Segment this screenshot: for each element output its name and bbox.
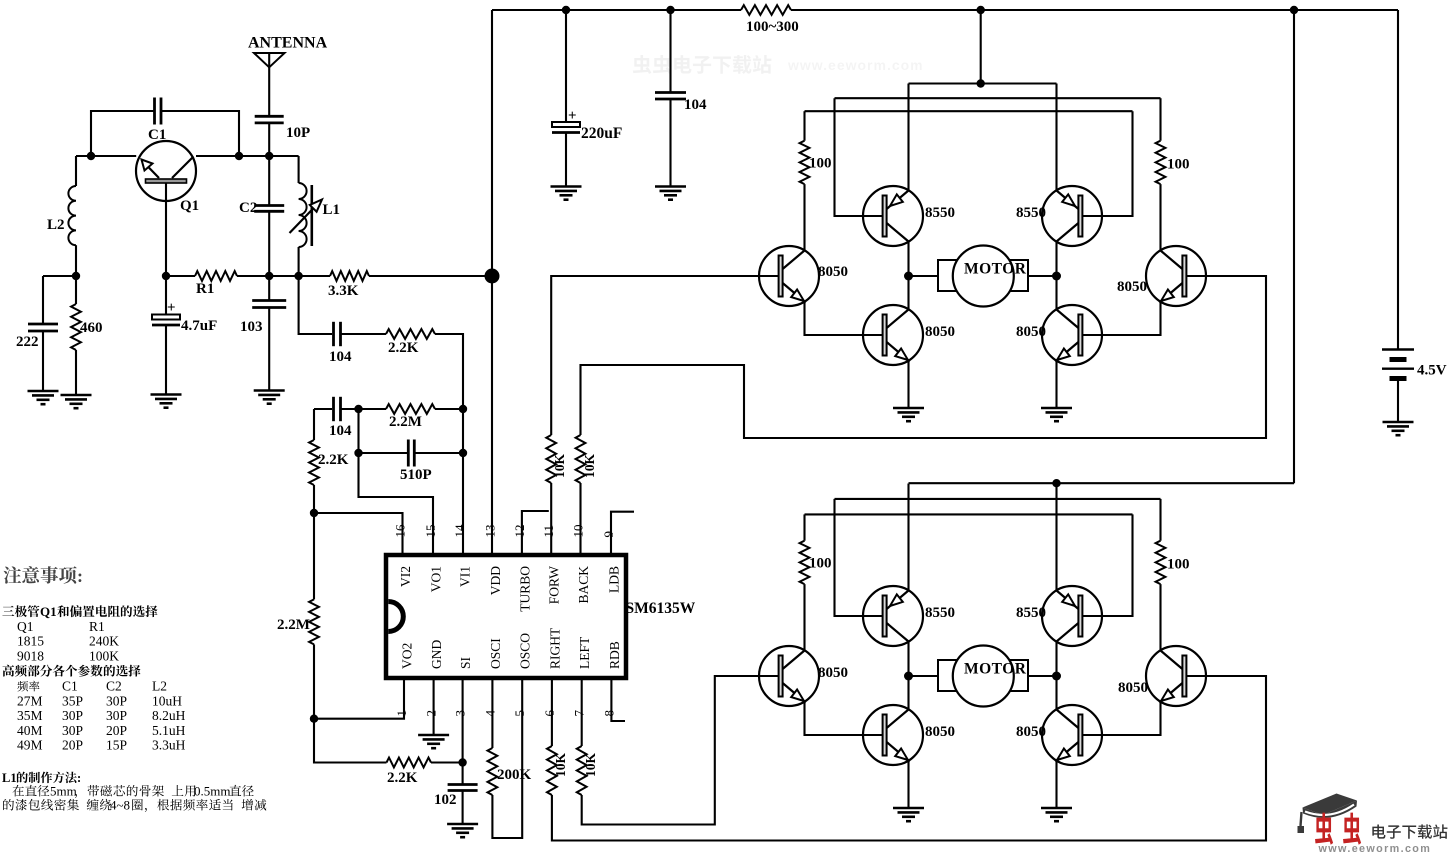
wire xyxy=(166,275,195,277)
svg-text:8050: 8050 xyxy=(818,665,848,681)
wire xyxy=(907,84,909,191)
node xyxy=(235,152,243,160)
svg-text:11: 11 xyxy=(541,525,556,538)
capacitor 104 (row2) xyxy=(334,397,341,421)
svg-text:LEFT: LEFT xyxy=(577,636,592,669)
svg-text:30P: 30P xyxy=(106,708,127,723)
wire xyxy=(1055,761,1057,809)
svg-text:0.5mm: 0.5mm xyxy=(194,784,230,799)
svg-text:1815: 1815 xyxy=(17,634,44,649)
svg-text:R1: R1 xyxy=(89,619,105,634)
svg-text:13: 13 xyxy=(482,525,497,538)
wire xyxy=(313,485,315,513)
wire xyxy=(835,499,884,616)
wire xyxy=(907,761,909,809)
node xyxy=(1052,479,1060,487)
svg-text:100K: 100K xyxy=(89,649,119,664)
wire xyxy=(565,133,567,187)
wire pin10 to top-right driver xyxy=(581,276,1267,438)
svg-text:12: 12 xyxy=(512,525,527,538)
capacitor 104 (row1) xyxy=(334,322,341,346)
node xyxy=(265,272,273,280)
wire xyxy=(75,350,77,395)
wire pin 11 xyxy=(550,483,552,555)
watermark site name xyxy=(1372,824,1385,838)
wire cross rail B xyxy=(805,110,1133,112)
watermark logo cap xyxy=(1303,794,1358,818)
svg-text:49M: 49M xyxy=(17,738,43,753)
svg-text:222: 222 xyxy=(16,334,39,350)
svg-text:LDB: LDB xyxy=(607,566,622,593)
wire xyxy=(435,408,463,410)
wire pin7 to lower-left driver xyxy=(582,676,779,825)
watermark tassel xyxy=(1301,812,1302,826)
transistor 8050 (bottom left) xyxy=(863,305,923,365)
wire xyxy=(1055,84,1057,191)
node xyxy=(459,449,467,457)
svg-text:30P: 30P xyxy=(62,723,83,738)
wire xyxy=(1082,302,1161,336)
svg-text:100: 100 xyxy=(1167,557,1190,573)
svg-text:4.5V: 4.5V xyxy=(1417,363,1447,379)
svg-text:20P: 20P xyxy=(62,738,83,753)
ground xyxy=(254,391,285,404)
svg-text:2: 2 xyxy=(424,710,439,717)
svg-text:BACK: BACK xyxy=(576,566,591,604)
resistor 2.2K (bottom) xyxy=(387,758,432,768)
wire xyxy=(1055,276,1057,310)
node motor left xyxy=(904,672,913,681)
svg-text:8050: 8050 xyxy=(925,724,955,740)
op-amp U1 IC SM6135W body xyxy=(386,555,626,678)
ground xyxy=(61,395,92,408)
node VDD junction xyxy=(485,269,500,284)
wire pin 2 xyxy=(433,678,435,735)
wire xyxy=(907,484,909,591)
svg-text:10K: 10K xyxy=(553,753,568,778)
wire xyxy=(1055,361,1057,409)
wire to pin 16 xyxy=(314,513,403,555)
svg-text:35P: 35P xyxy=(62,693,83,708)
capacitor 10P xyxy=(255,116,284,123)
node xyxy=(310,509,318,517)
svg-text:104: 104 xyxy=(684,97,707,113)
wire xyxy=(907,676,909,710)
svg-text:Q1: Q1 xyxy=(40,604,57,619)
wire xyxy=(75,156,77,186)
svg-text:14: 14 xyxy=(452,524,467,538)
svg-text:Q1: Q1 xyxy=(180,198,199,214)
motor xyxy=(938,660,1028,691)
svg-text:27M: 27M xyxy=(17,693,43,708)
svg-text:VI1: VI1 xyxy=(458,566,473,587)
transistor 8050 (bottom left) xyxy=(863,705,923,765)
inductor L1 core bar xyxy=(310,185,313,246)
wire xyxy=(268,308,270,391)
wire xyxy=(907,642,909,677)
svg-text:200K: 200K xyxy=(497,767,532,783)
capacitor 103 xyxy=(252,301,286,308)
svg-text:SI: SI xyxy=(458,656,473,669)
node xyxy=(977,79,985,87)
node xyxy=(354,449,362,457)
svg-text:5: 5 xyxy=(512,710,527,717)
node xyxy=(310,715,318,723)
wire to pin 15 xyxy=(359,409,434,555)
node xyxy=(354,405,362,413)
svg-text:4: 4 xyxy=(482,710,497,717)
svg-text:MOTOR: MOTOR xyxy=(964,661,1027,678)
svg-text:100~300: 100~300 xyxy=(746,19,799,35)
wire xyxy=(313,513,315,599)
svg-text:2.2M: 2.2M xyxy=(389,414,422,430)
wire xyxy=(1028,275,1057,277)
wire xyxy=(803,184,805,250)
wire pin 4 xyxy=(491,678,493,748)
wire pin 7 xyxy=(581,678,583,746)
node xyxy=(458,758,466,766)
resistor 2.2K (left) xyxy=(309,440,319,485)
resistor 100 (left) xyxy=(800,141,810,184)
svg-text:8.2uH: 8.2uH xyxy=(152,708,186,723)
ground xyxy=(28,391,59,404)
svg-text:2.2K: 2.2K xyxy=(388,340,419,356)
resistor 3.3K xyxy=(330,271,369,281)
svg-text:OSCI: OSCI xyxy=(488,638,503,669)
svg-text:2.2K: 2.2K xyxy=(387,770,418,786)
resistor 2.2K (row1) xyxy=(386,329,435,339)
wire bridge V+ rail xyxy=(909,82,1057,84)
wire Q1 collector xyxy=(165,183,167,277)
svg-text:3.3K: 3.3K xyxy=(328,283,359,299)
resistor 10K (pin7) xyxy=(577,746,587,795)
svg-text:20P: 20P xyxy=(106,723,127,738)
note table 2 xyxy=(17,681,28,692)
wire xyxy=(1159,499,1161,541)
wire bridge V+ rail xyxy=(909,482,1295,484)
svg-text:5mm: 5mm xyxy=(50,784,77,799)
transistor 8550 (left) xyxy=(863,586,923,646)
transistor 8050 (left driver) xyxy=(759,646,819,706)
svg-text:16: 16 xyxy=(392,524,407,538)
svg-text:104: 104 xyxy=(329,349,352,365)
svg-text:10: 10 xyxy=(571,525,586,538)
transistor 8050 (bottom right) xyxy=(1042,705,1102,765)
svg-text:6: 6 xyxy=(542,710,557,717)
svg-text:8050: 8050 xyxy=(1016,724,1046,740)
node xyxy=(294,272,302,280)
wire xyxy=(1082,702,1161,736)
wire cross rail B xyxy=(805,513,1133,515)
wire xyxy=(237,275,330,277)
svg-text:RIGHT: RIGHT xyxy=(547,627,562,669)
svg-text:40M: 40M xyxy=(17,723,43,738)
svg-text:104: 104 xyxy=(329,423,352,439)
node motor right xyxy=(1052,272,1061,281)
wire xyxy=(1055,242,1057,277)
wire xyxy=(369,275,492,277)
wire xyxy=(803,584,805,650)
svg-text:510P: 510P xyxy=(400,467,432,483)
node xyxy=(666,6,674,14)
wire xyxy=(298,156,300,183)
faint watermark xyxy=(633,55,771,74)
wire xyxy=(803,514,805,540)
wire pin6 to lower-right driver xyxy=(552,676,1266,841)
wire xyxy=(1055,676,1057,710)
svg-text:RDB: RDB xyxy=(607,641,622,669)
note heading xyxy=(4,566,22,583)
svg-text:2.2K: 2.2K xyxy=(318,452,349,468)
svg-text:www.eeworm.com: www.eeworm.com xyxy=(787,57,924,73)
svg-text:C2: C2 xyxy=(106,679,122,694)
wire xyxy=(414,452,463,454)
node xyxy=(162,272,170,280)
svg-text:9018: 9018 xyxy=(17,649,44,664)
svg-text:15P: 15P xyxy=(106,738,127,753)
wire xyxy=(298,247,300,276)
svg-text:8050: 8050 xyxy=(1016,324,1046,340)
wire xyxy=(268,123,270,206)
ground xyxy=(151,395,182,408)
svg-text:103: 103 xyxy=(240,319,263,335)
wire C1 loop left xyxy=(91,111,155,156)
resistor 10K (pin11) xyxy=(546,435,556,483)
capacitor 4.7uF xyxy=(152,315,180,320)
resistor 100~300 xyxy=(741,5,791,15)
wire xyxy=(196,155,299,157)
ground xyxy=(893,408,924,421)
wire xyxy=(805,702,884,736)
svg-text:100: 100 xyxy=(809,556,832,572)
transistor 8050 (bottom right) xyxy=(1042,305,1102,365)
svg-text:8550: 8550 xyxy=(1016,205,1046,221)
wire xyxy=(431,761,463,763)
wire xyxy=(341,408,387,410)
wire xyxy=(42,276,44,324)
wire xyxy=(165,325,167,395)
resistor 100 (right) xyxy=(1156,141,1166,184)
svg-text:3.3uH: 3.3uH xyxy=(152,738,186,753)
svg-text:8050: 8050 xyxy=(818,264,848,280)
capacitor 104 xyxy=(655,93,686,100)
ground xyxy=(1041,408,1072,421)
IC notch xyxy=(388,602,403,632)
node xyxy=(459,405,467,413)
wire xyxy=(907,276,909,310)
svg-text:L2: L2 xyxy=(152,679,167,694)
svg-text:www.eeworm.com: www.eeworm.com xyxy=(1318,843,1432,853)
watermark chongchong xyxy=(1315,813,1333,845)
wire xyxy=(165,276,167,315)
svg-text:10uH: 10uH xyxy=(152,693,182,708)
capacitor 510P xyxy=(408,440,414,467)
capacitor 102 xyxy=(448,785,478,791)
wire xyxy=(462,791,464,825)
svg-text:9: 9 xyxy=(601,531,616,538)
svg-text:VDD: VDD xyxy=(488,566,503,595)
svg-text:8050: 8050 xyxy=(1117,279,1147,295)
svg-text:5.1uH: 5.1uH xyxy=(152,723,186,738)
resistor 2.2M (left) xyxy=(309,599,319,644)
wire xyxy=(1159,184,1161,250)
node xyxy=(1290,6,1298,14)
capacitor C1 xyxy=(155,98,162,125)
wire pin 3 xyxy=(462,678,464,785)
svg-text:10K: 10K xyxy=(582,454,597,479)
svg-text:8050: 8050 xyxy=(925,324,955,340)
svg-text:R1: R1 xyxy=(196,281,214,297)
svg-text:8550: 8550 xyxy=(925,205,955,221)
wire xyxy=(75,276,77,304)
resistor 2.2M (row2) xyxy=(386,404,435,414)
wire xyxy=(268,211,270,300)
transistor 8050 (right driver) xyxy=(1146,646,1206,706)
node motor left xyxy=(904,272,913,281)
wire base row xyxy=(76,155,136,157)
svg-text:10K: 10K xyxy=(583,753,598,778)
svg-text:2.2M: 2.2M xyxy=(277,617,310,633)
svg-text:+: + xyxy=(568,108,577,124)
node xyxy=(977,6,985,14)
battery 4.5V xyxy=(1382,350,1414,379)
svg-text::: : xyxy=(77,771,81,785)
wire antenna lead xyxy=(268,53,270,116)
note body line 1 xyxy=(12,785,24,797)
wire xyxy=(1159,584,1161,650)
svg-text:7: 7 xyxy=(572,710,587,717)
transistor 8550 (left) xyxy=(863,186,923,246)
wire xyxy=(75,245,77,276)
node xyxy=(562,6,570,14)
svg-text::: : xyxy=(77,566,83,586)
wire xyxy=(565,10,567,122)
wire xyxy=(313,409,315,440)
note line 1 xyxy=(2,606,14,616)
resistor 10K (pin6) xyxy=(547,746,557,795)
wire xyxy=(299,276,332,334)
svg-text:VI2: VI2 xyxy=(398,566,413,587)
resistor 100 (left) xyxy=(800,541,810,584)
svg-text:FORW: FORW xyxy=(547,566,562,605)
ground xyxy=(418,735,449,748)
wire xyxy=(1397,10,1399,349)
svg-text:8550: 8550 xyxy=(1016,605,1046,621)
wire pin 10 xyxy=(579,483,581,555)
svg-text:10K: 10K xyxy=(552,454,567,479)
ground xyxy=(1383,422,1414,435)
svg-text:VO2: VO2 xyxy=(400,643,415,669)
svg-text:VO1: VO1 xyxy=(428,566,443,592)
svg-text:4~8: 4~8 xyxy=(110,798,130,813)
note line 2 xyxy=(3,665,15,677)
capacitor C2 xyxy=(254,206,284,212)
wire xyxy=(359,452,409,454)
wire xyxy=(1397,379,1399,423)
wire xyxy=(669,10,671,93)
ground xyxy=(655,187,686,200)
resistor 100 (right) xyxy=(1156,541,1166,584)
transistor 8550 (right) xyxy=(1042,586,1102,646)
svg-text:MOTOR: MOTOR xyxy=(964,261,1027,278)
wire pin 5 loop xyxy=(492,678,522,838)
transistor Q1 xyxy=(136,141,196,201)
svg-text:240K: 240K xyxy=(89,634,119,649)
wire xyxy=(435,334,463,555)
wire cross rail A xyxy=(835,97,1161,99)
svg-text:4.7uF: 4.7uF xyxy=(181,318,217,334)
svg-text:1: 1 xyxy=(394,710,409,717)
wire xyxy=(1082,111,1133,216)
svg-text:C1: C1 xyxy=(62,679,78,694)
inductor L1 xyxy=(299,183,307,247)
ground xyxy=(447,824,478,837)
svg-text:ANTENNA: ANTENNA xyxy=(248,35,328,52)
transistor 8050 (left driver) xyxy=(759,246,819,306)
svg-text:L1: L1 xyxy=(2,771,17,785)
wire xyxy=(314,408,332,410)
top power rail xyxy=(492,9,741,11)
transistor 8550 (right) xyxy=(1042,186,1102,246)
resistor R1 xyxy=(195,271,237,281)
wire xyxy=(907,242,909,277)
wire xyxy=(1055,483,1057,590)
capacitor 222 xyxy=(28,324,58,331)
ground xyxy=(1041,808,1072,821)
svg-text:Q1: Q1 xyxy=(17,619,34,634)
wire xyxy=(1159,98,1161,141)
svg-text:C2: C2 xyxy=(239,200,257,216)
note body line 2 xyxy=(3,799,14,811)
svg-text:8: 8 xyxy=(601,710,616,717)
wire pin 9 stub xyxy=(611,512,634,555)
wire lower bridge feed xyxy=(1293,10,1295,483)
wire xyxy=(313,644,315,718)
node xyxy=(72,272,80,280)
wire cross rail A xyxy=(835,498,1161,500)
wire xyxy=(909,275,939,277)
wire xyxy=(803,111,805,141)
wire xyxy=(907,361,909,409)
wire xyxy=(341,333,387,335)
svg-text:SM6135W: SM6135W xyxy=(626,600,696,617)
svg-text:100: 100 xyxy=(809,156,832,172)
svg-text:15: 15 xyxy=(423,525,438,538)
node xyxy=(265,152,273,160)
svg-text:L1: L1 xyxy=(323,202,341,218)
ground xyxy=(551,187,582,200)
svg-text:OSCO: OSCO xyxy=(518,633,533,669)
wire bridge feed xyxy=(980,10,982,84)
node motor right xyxy=(1052,672,1061,681)
svg-text:10P: 10P xyxy=(286,125,310,141)
wire xyxy=(42,331,44,391)
wire xyxy=(909,675,939,677)
wire pin 12 stub xyxy=(522,511,549,555)
svg-text:30P: 30P xyxy=(62,708,83,723)
wire xyxy=(835,98,884,216)
wire C1 loop right xyxy=(161,111,239,156)
wire pin 8 stub xyxy=(611,678,625,721)
svg-text:8050: 8050 xyxy=(1118,680,1148,696)
motor xyxy=(938,260,1028,291)
wire to pin 1 xyxy=(314,678,404,719)
wire xyxy=(314,719,387,763)
svg-text:L2: L2 xyxy=(47,217,65,233)
wire xyxy=(669,99,671,187)
resistor 200K xyxy=(488,748,498,795)
ground xyxy=(893,808,924,821)
